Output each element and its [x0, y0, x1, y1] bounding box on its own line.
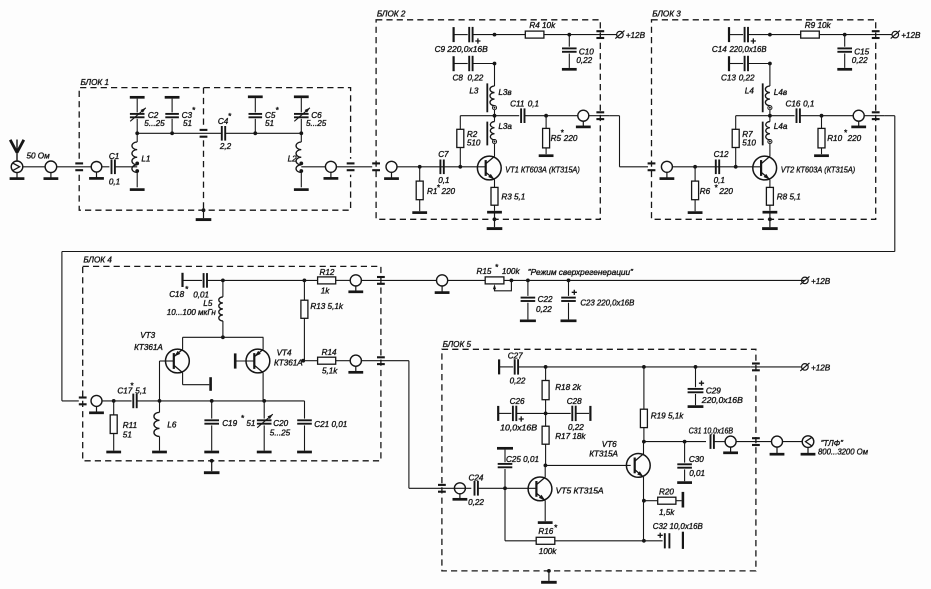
shield pass-through (output) — [752, 438, 760, 445]
capacitor C22 0,22 — [521, 280, 553, 319]
wire (VT4 base) — [237, 360, 255, 362]
svg-text:R3 5,1: R3 5,1 — [501, 193, 525, 202]
shield pass-through (input) — [648, 163, 656, 170]
node — [301, 359, 305, 363]
svg-text:L4: L4 — [745, 86, 755, 95]
ground (block 5 shield) — [541, 569, 557, 582]
svg-text:+12В: +12В — [811, 277, 831, 286]
capacitor C13 0,22 — [721, 56, 770, 83]
svg-text:5,1: 5,1 — [135, 386, 146, 395]
svg-text:С31 10,0x16В: С31 10,0x16В — [689, 426, 734, 435]
node — [642, 539, 646, 543]
connector X1 (antenna jack) — [10, 161, 25, 179]
svg-text:510: 510 — [742, 138, 756, 147]
svg-text:1k: 1k — [321, 286, 331, 295]
svg-text:VT5 КТ315А: VT5 КТ315А — [556, 487, 604, 496]
svg-text:VT2 КТ603А (КТ315А): VT2 КТ603А (КТ315А) — [781, 165, 856, 174]
potentiometer R15* 100k — [477, 263, 521, 291]
variable capacitor C20 5...25 — [257, 401, 291, 451]
svg-text:0,22: 0,22 — [468, 74, 484, 83]
svg-text:0,1: 0,1 — [109, 178, 120, 187]
wire — [750, 366, 801, 368]
svg-text:51: 51 — [123, 431, 132, 440]
БЛОК 3 enclosure — [652, 20, 876, 220]
ground — [257, 451, 272, 454]
svg-text:0,1: 0,1 — [803, 99, 814, 108]
ground — [152, 451, 167, 454]
node — [210, 399, 214, 403]
capacitor C11 0,1 — [510, 99, 539, 123]
svg-text:C22: C22 — [538, 295, 553, 304]
svg-text:0,1: 0,1 — [714, 176, 725, 185]
node: L2 tap dots — [299, 162, 303, 166]
variable capacitor C2 5...25 — [130, 97, 165, 133]
wire (VT5 collector) — [544, 465, 546, 477]
svg-text:R19 5,1k: R19 5,1k — [651, 412, 684, 421]
ground (block shield) — [487, 214, 503, 229]
ground (emitter) — [763, 211, 778, 214]
ground (block 4 shield) — [204, 459, 220, 473]
svg-text:L5: L5 — [203, 299, 213, 308]
svg-text:R9 10k: R9 10k — [805, 21, 832, 30]
svg-text:220,0x16В: 220,0x16В — [446, 45, 488, 54]
wire — [504, 279, 805, 281]
node — [526, 279, 530, 283]
resistor R9 10k — [801, 21, 832, 38]
wire (block3 output to block4 input) — [62, 116, 895, 401]
svg-text:VT4: VT4 — [277, 348, 292, 357]
wire — [137, 400, 305, 402]
wire — [336, 166, 372, 168]
svg-text:L3: L3 — [469, 86, 479, 95]
capacitor C9 220,0x16В (electrolytic) — [435, 27, 495, 54]
capacitor C25 0,01 — [497, 448, 539, 488]
wire (base line) — [397, 166, 486, 168]
wire (top line) — [207, 279, 318, 281]
wire (VT4 emitter) — [262, 337, 264, 349]
capacitor C24 0,22 — [468, 473, 484, 507]
svg-text:0,22: 0,22 — [536, 305, 552, 314]
svg-text:C24: C24 — [469, 473, 484, 482]
connector (block 5 input) — [453, 483, 468, 500]
svg-text:C12: C12 — [714, 150, 729, 159]
svg-text:10,0x16В: 10,0x16В — [500, 423, 538, 432]
wire (VT3 emitter) — [182, 337, 184, 349]
node — [303, 279, 307, 283]
wire — [448, 279, 486, 281]
ground (C29) — [688, 405, 704, 408]
node: L1 tap dots — [135, 162, 139, 166]
svg-text:0,22: 0,22 — [568, 423, 584, 432]
inductor L6 — [154, 401, 177, 451]
svg-text:L1: L1 — [141, 155, 150, 164]
svg-text:10...100 мкГн: 10...100 мкГн — [167, 308, 217, 317]
resistor R17 18k — [542, 413, 586, 465]
node — [493, 114, 497, 118]
capacitor C32 10,0x16В (electrolytic) — [644, 522, 703, 549]
wire — [336, 360, 351, 362]
inductor L4а (winding) — [766, 116, 788, 157]
ground (L1 bottom) — [130, 188, 145, 191]
wire (base line) — [672, 166, 761, 168]
svg-text:L3а: L3а — [498, 122, 512, 131]
svg-text:КТ361А: КТ361А — [134, 343, 163, 352]
ground (VT3 collector) — [209, 377, 212, 391]
shield pass-through (R14) — [377, 357, 385, 364]
svg-text:0,22: 0,22 — [576, 56, 592, 65]
wire — [736, 441, 771, 443]
wire — [361, 279, 436, 281]
connector (output) — [851, 110, 866, 127]
ground (block 1 shield) — [196, 208, 212, 219]
svg-text:C1: C1 — [109, 152, 119, 161]
БЛОК 4 enclosure — [83, 266, 381, 460]
node — [299, 131, 303, 135]
svg-text:БЛОК 4: БЛОК 4 — [83, 256, 112, 265]
wire (emitter) — [494, 180, 496, 188]
svg-text:51: 51 — [246, 419, 255, 428]
wire (VT6 emitter) — [643, 477, 645, 541]
svg-text:КТ361А: КТ361А — [274, 359, 303, 368]
svg-text:5...25: 5...25 — [144, 119, 165, 128]
capacitor C29 220,0x16В (electrolytic) — [688, 365, 744, 405]
resistor R14 5,1k — [303, 348, 338, 375]
connector X4 — [324, 161, 339, 178]
capacitor С31 10,0x16В (electrolytic) — [689, 426, 734, 449]
wire — [864, 115, 885, 117]
ground — [561, 319, 577, 322]
wire — [409, 487, 471, 489]
svg-text:L4а: L4а — [774, 122, 788, 131]
terminal +12В (block 5) — [800, 363, 830, 372]
svg-text:R6: R6 — [700, 187, 711, 196]
svg-text:+12В: +12В — [626, 31, 646, 40]
capacitor C5* 51 — [248, 97, 280, 134]
terminal +12В — [891, 31, 921, 40]
node — [768, 114, 772, 118]
node — [567, 33, 571, 37]
resistor R1* 220 — [416, 167, 455, 211]
transistor VT2 КТ603А (КТ315А) — [753, 156, 777, 180]
resistor R8 5,1 — [766, 187, 800, 210]
ground (C30) — [677, 481, 692, 484]
ground (L2 bottom) — [294, 188, 309, 191]
svg-text:220,0x16В: 220,0x16В — [729, 45, 767, 54]
connector (output) — [576, 110, 591, 127]
svg-text:220: 220 — [563, 134, 578, 143]
inductor L2 — [288, 133, 302, 187]
transistor VT4 КТ361А — [246, 349, 270, 373]
capacitor C3* 51 — [165, 97, 196, 133]
node — [544, 365, 548, 369]
shield pass-through (output) — [596, 112, 604, 119]
svg-text:БЛОК 5: БЛОК 5 — [443, 340, 472, 349]
capacitor C30 0,01 — [677, 442, 705, 482]
svg-text:БЛОК 1: БЛОК 1 — [81, 78, 109, 87]
capacitor C18* 0,01 — [169, 273, 209, 300]
svg-text:БЛОК 2: БЛОК 2 — [377, 10, 406, 19]
wire (tank line) — [102, 400, 132, 402]
shield pass-through (rail +12В) — [752, 364, 760, 371]
svg-text:0,01: 0,01 — [689, 469, 705, 478]
svg-text:800...3200 Ом: 800...3200 Ом — [818, 448, 868, 457]
shield pass-through (block 4 input) — [79, 398, 87, 405]
transistor VT5 КТ315А — [528, 477, 552, 501]
transistor VT6 КТ315А — [626, 454, 650, 478]
ground (R20) — [682, 492, 685, 508]
svg-text:220: 220 — [441, 187, 456, 196]
svg-text:C18: C18 — [169, 290, 184, 299]
wire — [361, 360, 409, 362]
connector (input БЛОК 2) — [384, 161, 399, 178]
resistor R5* 220 — [543, 116, 578, 155]
shield pass-through (R12) — [377, 277, 385, 284]
node — [683, 440, 687, 444]
shield partition with pass-through — [200, 88, 208, 211]
shield pass-through (block 5 input) — [438, 485, 446, 492]
wire — [544, 34, 617, 36]
resistor R16* 100k — [536, 523, 558, 556]
capacitor C15 0,22 — [837, 35, 869, 68]
node (C8/L3 junction) — [493, 62, 497, 66]
svg-text:C23 220,0x16В: C23 220,0x16В — [580, 298, 635, 307]
svg-text:0,22: 0,22 — [739, 74, 755, 83]
wire — [23, 166, 45, 168]
ground — [688, 211, 703, 214]
resistor R2 510 — [457, 116, 481, 167]
node — [221, 279, 225, 283]
transistor VT3 КТ361А — [166, 349, 190, 373]
resistor R10* 220 — [818, 116, 862, 155]
node — [170, 131, 174, 135]
inductor L3в (winding) — [469, 64, 511, 116]
node — [642, 440, 646, 444]
svg-text:R8 5,1: R8 5,1 — [777, 193, 801, 202]
wire (to block 5 input) — [408, 361, 410, 489]
svg-text:R13 5,1k: R13 5,1k — [310, 302, 343, 311]
svg-text:R17 18k: R17 18k — [555, 432, 586, 441]
svg-text:C20: C20 — [273, 419, 288, 428]
wire (VT4 collector) — [262, 373, 264, 401]
svg-text:51: 51 — [265, 119, 274, 128]
node — [820, 114, 824, 118]
svg-text:C13: C13 — [721, 74, 736, 83]
svg-text:C21 0,01: C21 0,01 — [314, 420, 347, 429]
svg-text:50 Ом: 50 Ом — [27, 151, 51, 160]
connector (block 5 output) — [723, 436, 738, 453]
svg-text:C19: C19 — [222, 419, 237, 428]
capacitor C14 220,0x16В (electrolytic) — [712, 27, 770, 54]
wire — [714, 441, 725, 443]
БЛОК 5 enclosure — [442, 349, 756, 571]
ground (emitter) — [487, 211, 502, 214]
node — [843, 33, 847, 37]
svg-text:”Режим сверхрегенерации”: ”Режим сверхрегенерации” — [528, 268, 633, 277]
node — [112, 399, 116, 403]
node — [503, 486, 507, 490]
svg-text:R18 2k: R18 2k — [555, 383, 582, 392]
capacitor C7 0,1 — [438, 150, 449, 185]
svg-text:VT1 КТ603А (КТ315А): VT1 КТ603А (КТ315А) — [505, 165, 580, 174]
connector (R14 out) — [348, 355, 363, 372]
resistor R7 510 — [732, 116, 756, 167]
wire (to VT6 base) — [545, 464, 630, 466]
ground — [204, 451, 219, 454]
capacitor C17* 5,1 — [117, 381, 146, 408]
node — [493, 33, 497, 37]
node — [262, 399, 266, 403]
shield pass-through (rail) — [596, 31, 604, 38]
svg-text:R14: R14 — [322, 348, 337, 357]
wire (+12V rail) — [495, 34, 526, 36]
wire — [783, 441, 803, 443]
wire (+12V rail) — [770, 34, 801, 36]
wire (emitter) — [769, 180, 771, 188]
variable capacitor C6 5...25 — [294, 97, 327, 134]
wire — [555, 540, 644, 542]
svg-text:51: 51 — [183, 119, 192, 128]
resistor R13 5,1k — [301, 280, 344, 360]
svg-text:C9: C9 — [435, 45, 446, 54]
wire (VT6 collector) — [643, 442, 645, 454]
transistor VT1 КТ603А (КТ315А) — [477, 156, 501, 180]
svg-text:L6: L6 — [167, 421, 177, 430]
wire (block1 coupling line) — [137, 132, 222, 134]
node — [544, 412, 548, 416]
node — [768, 33, 772, 37]
node — [510, 279, 514, 283]
shield pass-through (block 1 right) — [347, 163, 355, 170]
node — [221, 335, 225, 339]
capacitor C16 0,1 — [786, 99, 815, 123]
svg-text:5,1k: 5,1k — [322, 366, 338, 375]
resistor R3 5,1 — [491, 187, 525, 210]
wire — [115, 166, 137, 168]
wire — [102, 166, 110, 168]
node — [734, 165, 738, 169]
svg-text:БЛОК 3: БЛОК 3 — [652, 10, 681, 19]
antenna WA1 — [10, 140, 24, 162]
svg-text:510: 510 — [467, 138, 481, 147]
svg-text:VT6: VT6 — [602, 440, 617, 449]
connector (R12 out) — [348, 275, 363, 292]
wire — [301, 166, 325, 168]
connector (input БЛОК 3) — [660, 161, 675, 178]
svg-text:+12В: +12В — [901, 31, 921, 40]
svg-text:C25 0,01: C25 0,01 — [506, 455, 539, 464]
wire — [225, 132, 301, 134]
capacitor C12 0,1 — [714, 150, 729, 185]
capacitor C21 0,01 — [297, 401, 347, 451]
svg-text:0,22: 0,22 — [852, 56, 868, 65]
svg-text:100k: 100k — [539, 547, 558, 556]
shield pass-through (output) — [872, 112, 880, 119]
capacitor C28 0,22 — [546, 397, 591, 432]
node — [253, 131, 257, 135]
resistor R11 51 — [110, 401, 137, 451]
svg-text:C16: C16 — [786, 99, 801, 108]
svg-text:220,0x16В: 220,0x16В — [701, 396, 744, 405]
svg-text:C7: C7 — [438, 150, 449, 159]
svg-text:220: 220 — [847, 134, 862, 143]
ground — [814, 154, 829, 157]
capacitor C19* 51 — [204, 401, 255, 451]
resistor R19 5,1k — [640, 365, 684, 442]
node — [458, 165, 462, 169]
svg-text:+12В: +12В — [811, 363, 831, 372]
connector (quench supply) — [435, 275, 450, 293]
wire — [478, 487, 536, 489]
resistor R6* 220 — [692, 167, 734, 211]
connector (phones line) — [770, 436, 785, 454]
ground — [837, 68, 852, 71]
inductor L1 — [132, 133, 151, 187]
ground — [539, 154, 554, 157]
wire — [525, 115, 578, 117]
svg-text:1,5k: 1,5k — [659, 508, 675, 517]
wire (R16 line) — [505, 488, 536, 541]
svg-text:C28: C28 — [567, 397, 582, 406]
ground (block shield) — [762, 214, 778, 229]
node — [158, 399, 162, 403]
svg-text:С32 10,0x16В: С32 10,0x16В — [653, 522, 704, 531]
svg-text:5...25: 5...25 — [306, 119, 327, 128]
svg-text:C26: C26 — [510, 397, 525, 406]
svg-text:5...25: 5...25 — [270, 428, 291, 437]
svg-text:VT3: VT3 — [140, 331, 155, 340]
wire (collector line) — [644, 441, 706, 443]
svg-text:КТ315А: КТ315А — [589, 449, 618, 458]
node — [544, 114, 548, 118]
svg-text:C14: C14 — [712, 45, 727, 54]
wire — [57, 166, 91, 168]
node — [544, 464, 548, 468]
ground — [562, 68, 577, 71]
wire (block 5 rail) — [518, 366, 750, 368]
terminal +12В (quench line) — [800, 276, 830, 285]
resistor R12 1k — [318, 268, 336, 295]
capacitor C23 220,0x16В (electrolytic) — [561, 280, 635, 319]
transformer L4 core — [762, 83, 764, 145]
wire (tap line) — [460, 115, 519, 117]
capacitor C4* 2,2 — [218, 112, 232, 151]
resistor R20 1,5k — [644, 487, 682, 517]
connector "ТЛФ" (phones jack) — [801, 436, 816, 454]
wire (VT3 base) — [160, 361, 174, 401]
inductor L5 10...100 мкГн — [167, 280, 223, 337]
svg-text:2,2: 2,2 — [219, 142, 232, 151]
ground — [297, 451, 312, 454]
svg-text:R12: R12 — [320, 268, 335, 277]
wire (emitter rail) — [183, 336, 264, 338]
capacitor C26 10,0x16В (electrolytic) — [498, 397, 545, 433]
svg-text:L2: L2 — [288, 155, 298, 164]
node — [418, 165, 422, 169]
svg-text:R15: R15 — [477, 267, 492, 276]
wire — [819, 34, 892, 36]
connector X3 — [89, 162, 104, 179]
wire (VT3 collector to chassis) — [183, 373, 210, 385]
svg-text:L3в: L3в — [498, 88, 511, 97]
ground — [412, 211, 427, 214]
node — [567, 279, 571, 283]
svg-text:220: 220 — [718, 187, 733, 196]
svg-text:C29: C29 — [706, 386, 721, 395]
connector X2 — [44, 161, 59, 179]
inductor L3а (winding) — [490, 116, 512, 157]
svg-text:R16: R16 — [538, 527, 553, 536]
inductor L4в (winding) — [745, 64, 787, 116]
